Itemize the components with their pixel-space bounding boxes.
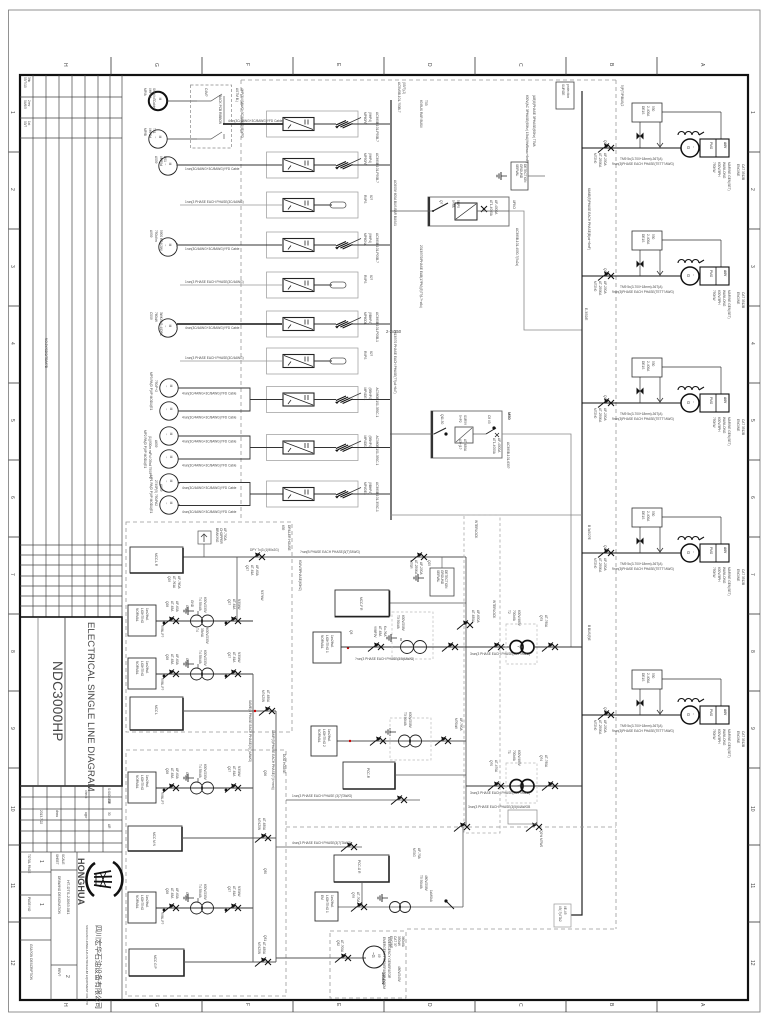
svg-text:CHOPPER: CHOPPER xyxy=(219,528,223,544)
svg-text:350kW: 350kW xyxy=(381,972,386,985)
svg-text:(9HP4): (9HP4) xyxy=(368,233,372,243)
svg-text:AT1-4000A: AT1-4000A xyxy=(492,438,496,455)
drive rows xyxy=(177,111,390,514)
svg-text:AT-?0A: AT-?0A xyxy=(356,892,360,903)
svg-text:1: 1 xyxy=(38,903,44,906)
svg-text:03/7: 03/7 xyxy=(23,121,27,127)
svg-text:Q29: Q29 xyxy=(167,576,171,582)
motor labels xyxy=(143,88,167,514)
bottom-left cells xyxy=(20,852,77,1000)
interlock dashed column xyxy=(464,515,500,833)
MCC G P box xyxy=(129,949,184,976)
svg-text:AC5M0B-101-?00B-7: AC5M0B-101-?00B-7 xyxy=(397,82,401,113)
svg-text:N3?kW: N3?kW xyxy=(260,590,264,600)
dashed VFD room boundary xyxy=(241,80,616,929)
svg-text:(AB)5(PHASE 3PHASE(60Hz) T5VA: (AB)5(PHASE 3PHASE(60Hz) T5VA xyxy=(532,95,536,147)
row4 xyxy=(177,232,390,263)
svg-text:G: G xyxy=(153,1003,159,1007)
svg-text:F: F xyxy=(244,63,250,66)
svg-text:?run(B PHASE EACH PHASE(3(T)TA: ?run(B PHASE EACH PHASE(3(T)TAWG) xyxy=(300,550,360,554)
svg-text:Q?4: Q?4 xyxy=(539,755,543,761)
svg-text:DETECTION: DETECTION xyxy=(523,164,527,183)
svg-text:1run(3 PHASE EACH PHASE(3C/4AW: 1run(3 PHASE EACH PHASE(3C/4AWG) xyxy=(185,200,244,204)
svg-text:2013/5?2/PHASE EAB(1?PM)(5)T?(: 2013/5?2/PHASE EAB(1?PM)(5)T?(L?+x6x) xyxy=(419,245,423,308)
svg-text:3run(3 PHASE EACH PHASE(CTT?AW: 3run(3 PHASE EACH PHASE(CTT?AWG) xyxy=(470,791,530,795)
svg-text:3run(3 PHASE EACH PHASE(CTT?AW: 3run(3 PHASE EACH PHASE(CTT?AWG) xyxy=(470,652,530,656)
svg-text:MP2 PA(D P)#P MODU(E1: MP2 PA(D P)#P MODU(E1 xyxy=(143,430,147,469)
svg-text:Q2% M7W0: Q2% M7W0 xyxy=(539,830,543,847)
svg-text:AT-?30A: AT-?30A xyxy=(544,755,548,768)
svg-text:F: F xyxy=(244,1003,250,1006)
svg-text:SICHUAN HONGHUA PETROLEUM EQUI: SICHUAN HONGHUA PETROLEUM EQUIPMENT CO.,… xyxy=(85,925,89,1006)
svg-text:30: 30 xyxy=(107,812,111,816)
svg-text:DPY 7x(3 (1)90x2G): DPY 7x(3 (1)90x2G) xyxy=(250,548,279,552)
neutral grounding resistor box xyxy=(554,904,571,927)
svg-text:4run(3C/4AWG+3C/8AWG)YFD Cable: 4run(3C/4AWG+3C/8AWG)YFD Cable xyxy=(228,119,283,123)
svg-text:4run(3C/4AWG+3C/8AWG)YFD Cable: 4run(3C/4AWG+3C/8AWG)YFD Cable xyxy=(182,464,237,468)
svg-text:#HP5d: #HP5d xyxy=(159,156,163,166)
sign table py786-852 xyxy=(20,786,122,852)
generator branch 3 xyxy=(582,358,745,446)
svg-text:60 BUS RAR BUS#: 60 BUS RAR BUS# xyxy=(419,100,423,128)
svg-text:DRILLER HOUSE: DRILLER HOUSE xyxy=(287,525,291,551)
svg-text:5900 HP4(2W): 5900 HP4(2W) xyxy=(159,230,163,251)
svg-text:5: 5 xyxy=(9,419,15,422)
svg-text:UFKO: UFKO xyxy=(512,200,516,209)
svg-text:760kW: 760kW xyxy=(154,312,158,322)
svg-text:GND: GND xyxy=(190,600,194,608)
svg-text:AC380B-101-P50B-7: AC380B-101-P50B-7 xyxy=(375,112,379,142)
svg-text:MCC G P: MCC G P xyxy=(153,955,157,969)
svg-text:NORMAL: NORMAL xyxy=(320,635,324,649)
motor MP-A xyxy=(149,92,167,110)
svg-text:600V/208V: 600V/208V xyxy=(408,712,412,729)
svg-text:A3+(1?: A3+(1? xyxy=(458,439,462,450)
svg-text:T1: T1 xyxy=(507,750,511,754)
svg-text:AC380B-101-P00B-7: AC380B-101-P00B-7 xyxy=(375,233,379,263)
svg-text:DRAWING DESIGNATION: DRAWING DESIGNATION xyxy=(57,876,61,915)
svg-text:T4: T4 xyxy=(195,628,199,632)
row9 pair xyxy=(178,435,390,468)
svg-text:H: H xyxy=(62,1003,68,1007)
svg-text:1xv26vA: 1xv26vA xyxy=(330,895,334,908)
svg-text:G: G xyxy=(153,63,159,67)
svg-text:AT-250KA: AT-250KA xyxy=(414,560,418,575)
svg-text:C: C xyxy=(517,1003,523,1007)
left edge ticks xyxy=(9,151,21,153)
svg-text:BRAKING: BRAKING xyxy=(215,528,219,543)
svg-text:MP#DE3: MP#DE3 xyxy=(363,482,367,495)
row1 MP A xyxy=(228,111,390,142)
svg-text:AF-700A: AF-700A xyxy=(223,528,227,541)
svg-text:(05/7)(J): (05/7)(J) xyxy=(402,82,406,94)
svg-text:8J?: 8J? xyxy=(369,351,373,356)
lighting chain 4 xyxy=(128,884,253,924)
svg-text:7: 7 xyxy=(749,573,755,576)
svg-text:AR: AR xyxy=(107,824,111,829)
svg-text:8J?: 8J? xyxy=(369,195,373,200)
svg-text:1run(3C/4AWG+3C/8AWG)YFD Cable: 1run(3C/4AWG+3C/8AWG)YFD Cable xyxy=(185,167,240,171)
svg-text:AT-630A: AT-630A xyxy=(262,818,266,831)
svg-text:#E-#5: #E-#5 xyxy=(563,906,567,915)
svg-text:MCC L: MCC L xyxy=(154,705,158,715)
svg-text:AC380B-101-350C-1: AC380B-101-350C-1 xyxy=(375,436,379,466)
svg-text:Q32: Q32 xyxy=(336,940,340,946)
svg-text:1st: 1st xyxy=(27,121,31,125)
svg-text:Y98F9V: Y98F9V xyxy=(373,626,377,638)
svg-text:?run(3 PHASE EACH PHASE(3/5)6A: ?run(3 PHASE EACH PHASE(3/5)6AWG) xyxy=(355,657,414,661)
motor MP-B xyxy=(149,130,167,148)
svg-text:1run(3 PHASE EACH PHASE(3C/4AW: 1run(3 PHASE EACH PHASE(3C/4AWG) xyxy=(185,280,244,284)
svg-text:4run(3C/4AWG+3C/8AWG)YFD Cable: 4run(3C/4AWG+3C/8AWG)YFD Cable xyxy=(182,416,237,420)
svg-text:MCC M N: MCC M N xyxy=(152,832,156,847)
svg-text:AF-600A: AF-600A xyxy=(476,610,480,623)
svg-text:4run(3C/4AWG+3C/8AWG)YFD Cable: 4run(3C/4AWG+3C/8AWG)YFD Cable xyxy=(182,440,237,444)
svg-text:1xMSkA: 1xMSkA xyxy=(429,890,433,903)
svg-text:AC380B-101-350C-1: AC380B-101-350C-1 xyxy=(375,388,379,418)
svg-text:Q3: Q3 xyxy=(349,630,353,634)
svg-text:10: 10 xyxy=(749,806,755,812)
svg-text:MP60PA: MP60PA xyxy=(363,112,367,125)
EM LIGHTING chain py907 xyxy=(338,906,463,908)
svg-text:350kW: 350kW xyxy=(397,936,401,946)
ground detection box 1 xyxy=(497,162,545,190)
svg-text:draw: draw xyxy=(55,810,59,818)
svg-text:ASTM B.): ASTM B.) xyxy=(235,88,239,102)
svg-text:600V/230V: 600V/230V xyxy=(205,628,209,645)
svg-text:3hk: 3hk xyxy=(27,77,31,83)
svg-text:M?2G: M?2G xyxy=(412,848,416,857)
svg-text:C: C xyxy=(517,63,523,67)
svg-text:AF-4000A: AF-4000A xyxy=(497,438,501,453)
svg-text:2740P(5) 750/PA2: 2740P(5) 750/PA2 xyxy=(154,480,158,506)
svg-text:9: 9 xyxy=(9,727,15,730)
svg-text:SERVAL: SERVAL xyxy=(515,164,519,177)
svg-text:AT-630A: AT-630A xyxy=(262,942,266,955)
svg-text:600V/480V: 600V/480V xyxy=(517,750,521,767)
svg-text:R#PS: R#PS xyxy=(363,351,367,359)
svg-text:480V/208V: 480V/208V xyxy=(424,875,428,892)
svg-text:6: 6 xyxy=(9,496,15,499)
svg-text:H: H xyxy=(62,63,68,67)
svg-text:Q30: Q30 xyxy=(263,868,267,874)
svg-text:8J?: 8J? xyxy=(369,275,373,280)
svg-text:9: 9 xyxy=(749,727,755,730)
svg-text:35kVA: 35kVA xyxy=(200,628,204,638)
PCC-R box xyxy=(343,762,395,789)
svg-text:600V/480V: 600V/480V xyxy=(517,610,521,627)
motor pumpC1 xyxy=(160,474,178,492)
svg-text:11: 11 xyxy=(9,883,15,888)
derrick logo glyph xyxy=(86,862,122,896)
emergency feeder vertical xyxy=(465,557,467,827)
svg-text:05/7/10: 05/7/10 xyxy=(23,77,27,88)
svg-text:(9HP4): (9HP4) xyxy=(368,112,372,122)
svg-text:8: 8 xyxy=(9,650,15,653)
svg-text:Q11.30: Q11.30 xyxy=(440,414,444,424)
svg-text:AC380B-101-P50B-7: AC380B-101-P50B-7 xyxy=(375,153,379,183)
svg-text:AT-61A: AT-61A xyxy=(250,565,254,576)
svg-text:2: 2 xyxy=(64,975,70,978)
svg-text:AC380B-101-630?: AC380B-101-630? xyxy=(506,442,510,469)
svg-text:E-3/52/E: E-3/52/E xyxy=(584,308,588,320)
svg-text:AC380B-101-4000-7(5x2x): AC380B-101-4000-7(5x2x) xyxy=(515,228,519,266)
top edge ticks xyxy=(110,57,112,75)
svg-text:5+PA: 5+PA xyxy=(451,200,455,209)
svg-text:04/6/5: 04/6/5 xyxy=(23,100,27,109)
svg-text:700kVA: 700kVA xyxy=(512,610,516,622)
svg-text:DETECTION: DETECTION xyxy=(444,570,448,589)
svg-text:3run(3 PHASE EACH PHASE(3(5)64: 3run(3 PHASE EACH PHASE(3(5)64AWGB xyxy=(468,805,530,809)
svg-text:Q31: Q31 xyxy=(263,935,267,941)
svg-text:2013.7.22: 2013.7.22 xyxy=(39,810,43,824)
MCC L box xyxy=(130,697,183,730)
svg-text:AT-63A: AT-63A xyxy=(378,626,382,637)
svg-text:NORMAL: NORMAL xyxy=(317,729,321,743)
svg-text:MP/B: MP/B xyxy=(143,128,147,136)
svg-text:7: 7 xyxy=(9,573,15,576)
svg-text:5HP5: 5HP5 xyxy=(456,200,460,208)
480V transformer chain A py647 xyxy=(313,590,582,664)
svg-text:M?4Z0N: M?4Z0N xyxy=(257,818,261,831)
svg-text:GSA?ON DESCRIPTION: GSA?ON DESCRIPTION xyxy=(29,944,33,981)
svg-text:A909: A909 xyxy=(149,230,153,238)
tie breaker Q7 box1 xyxy=(390,197,519,266)
svg-text:AF-?0A: AF-?0A xyxy=(417,848,421,860)
svg-text:3: 3 xyxy=(749,265,755,268)
svg-text:(1)(900m m/Ful 05hd 750/P+2: (1)(900m m/Ful 05hd 750/P+2 xyxy=(148,436,152,479)
svg-text:2013/5?2 PHASE EACH PHASE(7?)x: 2013/5?2 PHASE EACH PHASE(7?)x4+6x7) xyxy=(393,330,397,394)
svg-text:M?4Z0N: M?4Z0N xyxy=(261,690,265,703)
svg-text:LIGHTING 2: LIGHTING 2 xyxy=(322,729,326,747)
svg-text:AT-?30A: AT-?30A xyxy=(544,615,548,628)
svg-text:A009: A009 xyxy=(154,156,158,164)
480V transformer pair xyxy=(510,641,534,654)
feeder bus1->bus2 py515 xyxy=(390,514,582,516)
svg-text:1xv26vA: 1xv26vA xyxy=(330,635,334,648)
svg-text:C4M?: C4M? xyxy=(204,88,208,97)
svg-text:1run(3 PHASE EACH PHASE (3(7)T: 1run(3 PHASE EACH PHASE (3(7)TAWG) xyxy=(292,794,352,798)
svg-text:AC600V 600A BUS BAR BUS#1: AC600V 600A BUS BAR BUS#1 xyxy=(393,180,397,226)
svg-text:EM: EM xyxy=(320,895,324,900)
ground detection box 2 xyxy=(414,557,454,596)
row3 spare xyxy=(180,192,373,218)
svg-text:R#PS: R#PS xyxy=(363,195,367,203)
svg-text:EMERGENCY GENERATOR: EMERGENCY GENERATOR xyxy=(387,937,391,979)
svg-text:AT-630A: AT-630A xyxy=(266,690,270,703)
svg-text:MP3 PA(D P)#P MODU(E1: MP3 PA(D P)#P MODU(E1 xyxy=(149,372,153,411)
svg-text:MP#DE1: MP#DE1 xyxy=(363,388,367,401)
MCC feeder wire py557 xyxy=(183,548,466,575)
svg-text:T5 50kVA: T5 50kVA xyxy=(419,875,423,890)
svg-text:A609: A609 xyxy=(159,484,163,492)
svg-text:Q7: Q7 xyxy=(439,200,443,204)
svg-text:AT-?00A: AT-?00A xyxy=(340,940,344,953)
MCC M N box xyxy=(128,826,182,851)
svg-text:B BUS(5)E: B BUS(5)E xyxy=(587,625,591,641)
svg-text:AF-60A: AF-60A xyxy=(255,565,259,577)
svg-text:LIGHTING 1: LIGHTING 1 xyxy=(325,895,329,913)
svg-text:10: 10 xyxy=(9,806,15,812)
svg-text:SCALE: SCALE xyxy=(61,854,65,864)
braking resistor mini box xyxy=(198,531,211,544)
svg-text:(9HP4): (9HP4) xyxy=(368,153,372,163)
svg-text:BACK PCB RIBBON: BACK PCB RIBBON xyxy=(218,95,222,125)
svg-text:700kVA: 700kVA xyxy=(512,750,516,762)
misc breaker labels lower-left xyxy=(257,560,548,955)
svg-text:Kx-?6A: Kx-?6A xyxy=(383,626,387,637)
svg-text:AF-?90A: AF-?90A xyxy=(459,718,463,731)
motor pumpB1 xyxy=(160,427,178,445)
svg-text:TOTAL PAGE: TOTAL PAGE xyxy=(27,854,31,873)
lighting chain 3 xyxy=(128,764,253,804)
svg-text:CAT 3?: CAT 3? xyxy=(393,936,397,947)
svg-text:Q?9: Q?9 xyxy=(351,892,355,898)
svg-text:Q27: Q27 xyxy=(245,565,249,571)
bottom edge ticks xyxy=(110,1000,112,1012)
svg-text:2-2x150: 2-2x150 xyxy=(386,329,402,334)
svg-text:MP#DE2: MP#DE2 xyxy=(363,436,367,449)
svg-text:(9BHP4): (9BHP4) xyxy=(368,482,372,494)
svg-text:M?0kW: M?0kW xyxy=(454,718,458,729)
svg-text:MCC-L R: MCC-L R xyxy=(154,553,158,567)
svg-text:S1R5Y: S1R5Y xyxy=(463,415,467,426)
motor pumpB2 xyxy=(160,450,178,468)
svg-text:Q?0: Q?0 xyxy=(489,760,493,766)
svg-text:1AMP(3)PHASE EACH PHASE(7(4+mm: 1AMP(3)PHASE EACH PHASE(7(4+mm)) xyxy=(271,730,275,790)
svg-text:AC380B-101-350C-1: AC380B-101-350C-1 xyxy=(375,482,379,512)
svg-text:Q?3: Q?3 xyxy=(539,615,543,621)
svg-text:PCC-G R: PCC-G R xyxy=(357,860,361,874)
svg-text:Shed to/Cable: Shed to/Cable xyxy=(152,88,156,108)
svg-text:600V/208V: 600V/208V xyxy=(401,615,405,632)
svg-text:3: 3 xyxy=(9,265,15,268)
svg-text:GROUND: GROUND xyxy=(519,164,523,179)
svg-text:AT-630A: AT-630A xyxy=(471,610,475,623)
svg-text:A609: A609 xyxy=(154,440,158,448)
lighting chain T4 xyxy=(128,597,253,637)
svg-text:1run(3C/4AWG+3C/8AWG)YFD Cable: 1run(3C/4AWG+3C/8AWG)YFD Cable xyxy=(185,247,240,251)
svg-text:4run(3C/4AWG+3C/8AWG)YFD Cable: 4run(3C/4AWG+3C/8AWG)YFD Cable xyxy=(182,486,237,490)
svg-text:#9: #9 xyxy=(377,954,381,958)
svg-text:AT-?61A: AT-?61A xyxy=(172,576,176,589)
svg-text:R#PS: R#PS xyxy=(363,275,367,283)
surge protection box xyxy=(556,82,574,109)
svg-text:MP50PA: MP50PA xyxy=(363,153,367,166)
svg-text:4run(3C/4AWG+3C/8AWG)YFD Cable: 4run(3C/4AWG+3C/8AWG)YFD Cable xyxy=(182,392,237,396)
svg-text:(9BHP4): (9BHP4) xyxy=(368,388,372,400)
svg-text:1: 1 xyxy=(9,111,15,114)
svg-text:D01: D01 xyxy=(163,156,167,162)
generator branch 2 xyxy=(582,231,745,319)
title mini rows py545-617 xyxy=(20,545,122,606)
emergency generator G xyxy=(363,946,385,968)
motor pumpA2 xyxy=(160,402,178,420)
row5 spare xyxy=(180,272,373,298)
svg-text:D: D xyxy=(426,1003,432,1007)
MCC vertical feeder xyxy=(252,674,254,962)
svg-text:480V/240V: 480V/240V xyxy=(397,966,401,983)
wire to NORMAL LIGHTING 2 chain py741 xyxy=(337,740,466,742)
lighting chain 2 xyxy=(128,650,253,690)
svg-text:AT-630A: AT-630A xyxy=(463,439,467,452)
svg-text:#HP5d: #HP5d xyxy=(148,128,152,138)
svg-text:60#V/3PHASE(60HZ): 60#V/3PHASE(60HZ) xyxy=(298,560,302,591)
svg-text:5+P2: 5+P2 xyxy=(458,415,462,423)
svg-text:6AMB(5)PHASE EACH PHASE(B)air+: 6AMB(5)PHASE EACH PHASE(B)air+6mF) xyxy=(587,188,591,250)
tie link wires xyxy=(509,211,582,330)
svg-text:750/P+2: 750/P+2 xyxy=(154,380,158,392)
tie breaker Q8 box2 xyxy=(390,411,512,469)
svg-text:~G: ~G xyxy=(371,952,376,958)
svg-text:M50: M50 xyxy=(507,412,512,421)
wire py800 xyxy=(286,799,420,801)
svg-text:D: D xyxy=(426,63,432,67)
generator branch 4 xyxy=(582,508,745,596)
480V transformer chain B py786 xyxy=(466,750,582,803)
svg-text:M?4Z0N: M?4Z0N xyxy=(257,942,261,955)
emergency interlock dashed wire py827 xyxy=(286,805,616,847)
brake resistor dashed box xyxy=(191,85,284,148)
row10 pair xyxy=(178,481,390,514)
motor pumpC2 xyxy=(160,496,178,514)
svg-text:T01: T01 xyxy=(152,128,156,134)
motor RT xyxy=(159,319,177,337)
svg-text:1run(3 PHASE EACH PHASE(3C/4AW: 1run(3 PHASE EACH PHASE(3C/4AWG) xyxy=(185,356,244,360)
svg-text:AF-4000A: AF-4000A xyxy=(494,200,498,215)
svg-text:12: 12 xyxy=(749,960,755,966)
lighting transformer T3 xyxy=(313,632,341,663)
svg-text:HT-DTS-2J063.081: HT-DTS-2J063.081 xyxy=(66,880,71,915)
svg-text:Q25: Q25 xyxy=(427,560,431,566)
bus2 600V generator bus xyxy=(571,91,582,915)
motor DW-A xyxy=(159,157,177,175)
MCC-L R box xyxy=(130,547,183,573)
svg-text:MP60DB: MP60DB xyxy=(363,312,367,325)
svg-text:2: 2 xyxy=(9,188,15,191)
generator branch 5 xyxy=(582,670,745,758)
motor pumpA1 xyxy=(160,379,178,397)
svg-text:6: 6 xyxy=(749,496,755,499)
svg-text:HONGHUA: HONGHUA xyxy=(76,858,86,906)
svg-text:5: 5 xyxy=(749,419,755,422)
svg-text:#5(.?)#TA2: #5(.?)#TA2 xyxy=(558,906,562,922)
svg-text:AC380B-101-P00B-1: AC380B-101-P00B-1 xyxy=(375,312,379,342)
svg-text:(9BHP4): (9BHP4) xyxy=(368,436,372,448)
svg-text:SURGE: SURGE xyxy=(561,84,565,95)
svg-text:MP1 PA(D P)#P MODU(E1: MP1 PA(D P)#P MODU(E1 xyxy=(149,475,153,514)
right edge ticks xyxy=(748,151,760,153)
svg-text:C8 #3: C8 #3 xyxy=(487,415,491,424)
svg-text:INTERLOCK: INTERLOCK xyxy=(492,600,496,619)
svg-text:PCC-R: PCC-R xyxy=(366,768,370,779)
svg-text:REV?: REV? xyxy=(57,968,61,977)
wire py847 xyxy=(276,846,362,848)
svg-text:M70R: M70R xyxy=(409,560,413,569)
bus1 600V xyxy=(390,100,392,520)
svg-text:SHEET: SHEET xyxy=(55,854,59,865)
misc top labels xyxy=(397,82,591,540)
title main box xyxy=(20,617,122,786)
row7 spare xyxy=(180,348,373,374)
svg-text:2: 2 xyxy=(749,188,755,191)
wires from MCC boxes xyxy=(183,710,276,712)
svg-text:INTERLOCK: INTERLOCK xyxy=(474,520,478,539)
svg-text:4HP(3/4(3AWG+3C/8AWG)(B)YFD: 4HP(3/4(3AWG+3C/8AWG)(B)YFD xyxy=(240,88,244,138)
svg-text:NDC3000HP: NDC3000HP xyxy=(50,661,65,742)
svg-text:check: check xyxy=(84,790,88,799)
left band table / title strip xyxy=(20,75,122,1000)
